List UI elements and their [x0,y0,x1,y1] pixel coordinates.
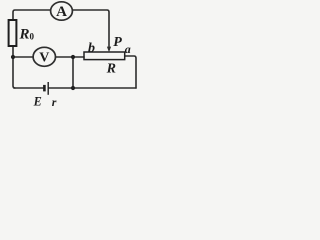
slider arrow P [107,35,122,52]
svg-text:R: R [19,27,30,43]
svg-text:A: A [56,4,67,20]
rheostat R body [84,52,125,77]
wire left rail (R0 bottom to bottom-left corner) [13,46,15,88]
battery E r [44,82,48,95]
voltmeter V [33,47,55,66]
wire right rail (rheostat end a down to bottom rail) [125,56,136,88]
wire bottom-right (battery to bottom-right corner) [49,87,136,89]
svg-text:0: 0 [30,32,35,42]
svg-text:a: a [125,42,131,56]
junction node b top [71,55,75,59]
wire voltmeter right (voltmeter to node b side) [56,56,85,58]
wire top-left (left rail top to ammeter) [13,10,51,20]
wire top-right (ammeter to slider drop) [72,10,109,47]
svg-text:b: b [88,41,95,56]
wire voltmeter left (left rail to voltmeter) [13,56,33,58]
junction node at left rail / voltmeter [11,55,15,59]
ammeter A [51,2,73,20]
svg-text:V: V [39,51,49,66]
svg-text:R: R [106,62,116,77]
svg-text:r: r [52,95,57,109]
wire bottom-left (corner to battery) [14,87,43,89]
svg-text:P: P [113,35,122,50]
svg-text:E: E [33,95,42,109]
resistor R0 [9,20,35,46]
junction node b bottom [71,86,75,90]
wire node-b drop (junction down to bottom rail) [72,57,74,88]
